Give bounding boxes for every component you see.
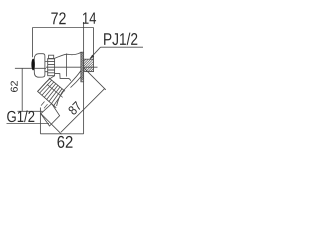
center vertical mark [66,54,68,77]
handle hub (black) [31,59,34,71]
dimension text 72 [51,12,65,24]
bonnet rungs [48,59,55,73]
dimension text 87 (rotated) [68,101,83,116]
body top contour [55,52,81,58]
wall flange outline [81,52,84,82]
87 dimension line 45 down-left [61,88,105,132]
outlet right edge from flange [62,71,81,93]
outlet end face extension line [41,114,62,135]
nipple outline [84,59,94,71]
bonnet rect [48,59,55,76]
PJ1/2 underline [101,46,144,48]
faucet body drawing [31,51,93,126]
outlet inner wall line [71,77,81,88]
outlet striped tube bottom edge [38,91,57,107]
stem between handle and bonnet [45,62,48,72]
bottom dimension 62 line [40,133,83,135]
dimension text 14 [83,12,96,23]
nipple hatch [84,59,94,71]
bonnet top cap [49,55,54,58]
outlet left edge [38,76,55,92]
extension line right (x=93.5) [93,28,95,60]
bottom extension left (x=40.4) [39,108,41,134]
bottom extension right / wall face (x=83.6) [83,72,85,134]
outlet tube mid line [47,84,63,97]
outlet thread stripes [37,78,64,106]
dimension text 62 (bottom) [58,136,73,148]
outlet striped tube top edge [49,78,65,91]
label PJ1/2 [104,33,137,45]
label G1/2 [7,110,34,122]
centerline [15,67,46,69]
dimension text 62 (left, rotated) [11,81,18,92]
PJ1/2 leader arrowhead [90,55,95,60]
thread stripes near end cap [41,102,48,109]
G1/2 underline [7,123,50,125]
wall flange hatch [81,51,84,81]
outlet end cap (rotated square) [41,104,60,126]
body bottom [55,74,71,81]
outlet lower-right edge to end cap [57,92,62,106]
dimension 62 left vertical line [21,68,23,111]
centerline (body, to wall) [46,66,98,68]
extension/tick line middle (x=83.6) [83,22,85,59]
dimension 72/14 top line [33,27,94,29]
PJ1/2 leader [90,47,101,58]
87 extension line from wall center, 45 down-right [84,68,106,90]
dimension 62 left bottom tick [18,110,43,112]
handle outline [34,54,45,77]
extension line left (x=32.5) [32,28,34,58]
labels [7,12,137,148]
